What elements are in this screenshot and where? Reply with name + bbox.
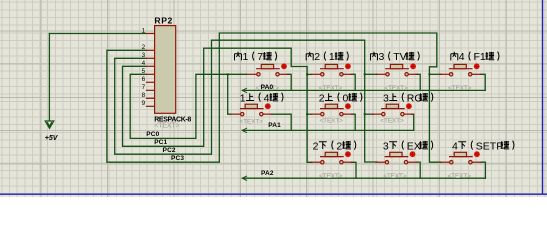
svg-text:2: 2	[142, 44, 146, 51]
svg-text:PC3: PC3	[171, 155, 184, 162]
wire 1SHANG to PA1	[271, 114, 291, 130]
wire NEI4 to PA0	[481, 74, 486, 90]
svg-text:<TEXT>: <TEXT>	[320, 118, 344, 125]
svg-text:F1: F1	[474, 51, 486, 63]
wire PC1 branch to NEI2	[307, 73, 311, 75]
wire net PC2 (RP2 pin3 to column 3)	[115, 40, 378, 162]
svg-text:PA2: PA2	[261, 170, 274, 177]
svg-text:<TEXT>: <TEXT>	[319, 173, 343, 180]
sheet border	[0, 193, 547, 195]
label NEI3 (TV key)	[371, 51, 420, 63]
svg-text:4: 4	[459, 51, 465, 63]
wire net PC3 (RP2 pin2 to column 4)	[107, 33, 441, 162]
power +5V	[45, 121, 59, 142]
label 3SHANG (RG key)	[383, 92, 433, 104]
terminal PA0 arrow	[242, 88, 247, 93]
svg-text:RP2: RP2	[154, 15, 173, 25]
svg-text:PA1: PA1	[268, 122, 281, 129]
svg-text:7: 7	[142, 84, 146, 91]
pushbutton 3XIA	[376, 151, 418, 164]
terminal PA1 arrow	[242, 128, 247, 133]
label NEI2 (1 key)	[306, 51, 348, 63]
svg-text:PC2: PC2	[163, 147, 176, 154]
wire NEI3 to PA0	[416, 74, 420, 90]
svg-text:3: 3	[142, 52, 146, 59]
pin 9	[146, 105, 155, 107]
svg-text:0: 0	[343, 92, 349, 104]
pushbutton NEI4	[440, 63, 482, 76]
pin 5	[146, 73, 155, 75]
svg-text:<TEXT>: <TEXT>	[240, 118, 264, 125]
wire +5V vertical	[48, 34, 50, 121]
svg-text:8: 8	[142, 92, 146, 99]
wire NEI2 to PA0	[351, 74, 355, 90]
wire 3XIA to PA2	[416, 162, 420, 178]
pushbutton 2XIA	[311, 151, 353, 164]
resistor pack RP2	[142, 15, 192, 129]
label 4XIA (SETP key)	[452, 140, 514, 152]
svg-text:+5V: +5V	[45, 135, 59, 142]
pin 4	[146, 65, 155, 67]
pin 7	[146, 89, 155, 91]
svg-text:PC1: PC1	[154, 139, 167, 146]
wire net PC0 (RP2 pin5 to column 1)	[130, 74, 246, 138]
svg-text:<TEXT>: <TEXT>	[383, 173, 407, 180]
svg-text:3: 3	[383, 92, 389, 104]
svg-text:4: 4	[452, 140, 458, 152]
svg-text:2: 2	[313, 140, 319, 152]
pushbutton NEI1	[247, 63, 289, 76]
svg-text:2: 2	[336, 140, 342, 152]
junction dots	[227, 73, 229, 75]
pushbutton 4XIA	[440, 151, 482, 164]
svg-text:PC0: PC0	[146, 131, 159, 138]
svg-text:2: 2	[314, 51, 320, 63]
svg-text:SETP: SETP	[476, 140, 503, 152]
svg-text:PA0: PA0	[261, 84, 274, 91]
wire 2XIA to PA2	[351, 162, 356, 178]
pin 8	[146, 97, 155, 99]
label 2XIA (2 key)	[313, 140, 356, 152]
svg-text:3: 3	[383, 140, 389, 152]
svg-text:1: 1	[240, 92, 246, 104]
label NEI4 (F1 key)	[451, 51, 499, 63]
svg-text:4: 4	[142, 60, 146, 67]
label 3XIA (EX key)	[383, 140, 433, 152]
pin 1	[146, 33, 155, 35]
svg-text:<TEXT>: <TEXT>	[384, 85, 408, 92]
svg-text:<TEXT>: <TEXT>	[448, 173, 472, 180]
wire PC0 branch to 1SHANG	[228, 74, 231, 114]
wire net PA2 row	[242, 177, 485, 179]
svg-text:6: 6	[142, 76, 146, 83]
svg-text:3: 3	[379, 51, 385, 63]
svg-text:7: 7	[257, 51, 263, 63]
wire net PA1 row	[242, 129, 414, 131]
wire NEI1 to PA0	[287, 74, 291, 90]
pin 2	[146, 49, 155, 51]
svg-text:<TEXT>: <TEXT>	[154, 120, 179, 129]
label 2SHANG (0 key)	[319, 92, 362, 104]
svg-text:5: 5	[142, 68, 146, 75]
svg-text:1: 1	[329, 51, 335, 63]
pushbutton 3SHANG	[372, 103, 414, 116]
svg-text:9: 9	[142, 100, 146, 107]
wire 2SHANG to PA1	[351, 114, 355, 130]
wire 4XIA to PA2	[481, 162, 486, 178]
svg-text:<TEXT>: <TEXT>	[380, 118, 404, 125]
wire PC1 branch to 2SHANG	[307, 113, 311, 115]
svg-text:2: 2	[319, 92, 325, 104]
svg-text:<TEXT>: <TEXT>	[448, 85, 472, 92]
pushbutton 2SHANG	[311, 103, 353, 116]
label NEI1 (7 key)	[235, 51, 277, 63]
pushbutton NEI2	[311, 63, 353, 76]
wire net PC1 (RP2 pin4 to column 2)	[123, 48, 312, 162]
terminal PA2 arrow	[242, 176, 247, 181]
pin 3	[146, 57, 155, 59]
svg-text:EX: EX	[407, 140, 421, 152]
svg-text:1: 1	[142, 27, 146, 34]
pin 6	[146, 81, 155, 83]
wire 3SHANG to PA1	[412, 114, 414, 130]
pushbutton NEI3	[376, 63, 418, 76]
svg-text:TV: TV	[393, 51, 406, 63]
wire +5V to RP2 pin1	[49, 33, 145, 35]
svg-text:4: 4	[264, 92, 270, 104]
pushbutton 1SHANG	[231, 103, 273, 116]
label 1SHANG (4 key)	[240, 92, 283, 104]
wire net PA0 row	[242, 89, 485, 91]
wire PC3 branch to NEI4	[429, 73, 441, 75]
svg-text:1: 1	[243, 51, 249, 63]
wire PC2 branch to NEI3	[365, 73, 378, 75]
wire PC2 branch to 3SHANG	[365, 113, 374, 115]
svg-text:<TEXT>: <TEXT>	[319, 85, 343, 92]
